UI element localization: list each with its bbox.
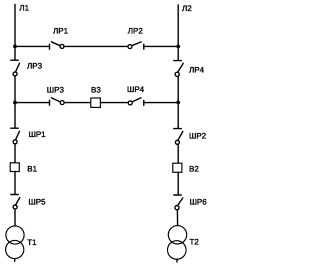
svg-text:ШР5: ШР5	[28, 198, 46, 207]
svg-text:ЛР4: ЛР4	[189, 65, 205, 74]
svg-text:Т2: Т2	[190, 238, 200, 247]
svg-text:Т1: Т1	[27, 238, 37, 247]
svg-text:В1: В1	[27, 165, 37, 174]
svg-text:ШР6: ШР6	[190, 198, 208, 207]
svg-text:В3: В3	[91, 85, 101, 94]
svg-text:ЛР2: ЛР2	[128, 26, 144, 35]
svg-text:Л1: Л1	[19, 4, 29, 13]
svg-text:ШР3: ШР3	[47, 85, 65, 94]
svg-text:ЛР1: ЛР1	[53, 26, 69, 35]
svg-text:ШР4: ШР4	[127, 85, 145, 94]
svg-text:ЛР3: ЛР3	[27, 61, 43, 70]
svg-text:Л2: Л2	[182, 4, 192, 13]
svg-text:ШР2: ШР2	[189, 131, 207, 140]
svg-text:В2: В2	[189, 164, 199, 173]
svg-text:ШР1: ШР1	[29, 130, 47, 139]
